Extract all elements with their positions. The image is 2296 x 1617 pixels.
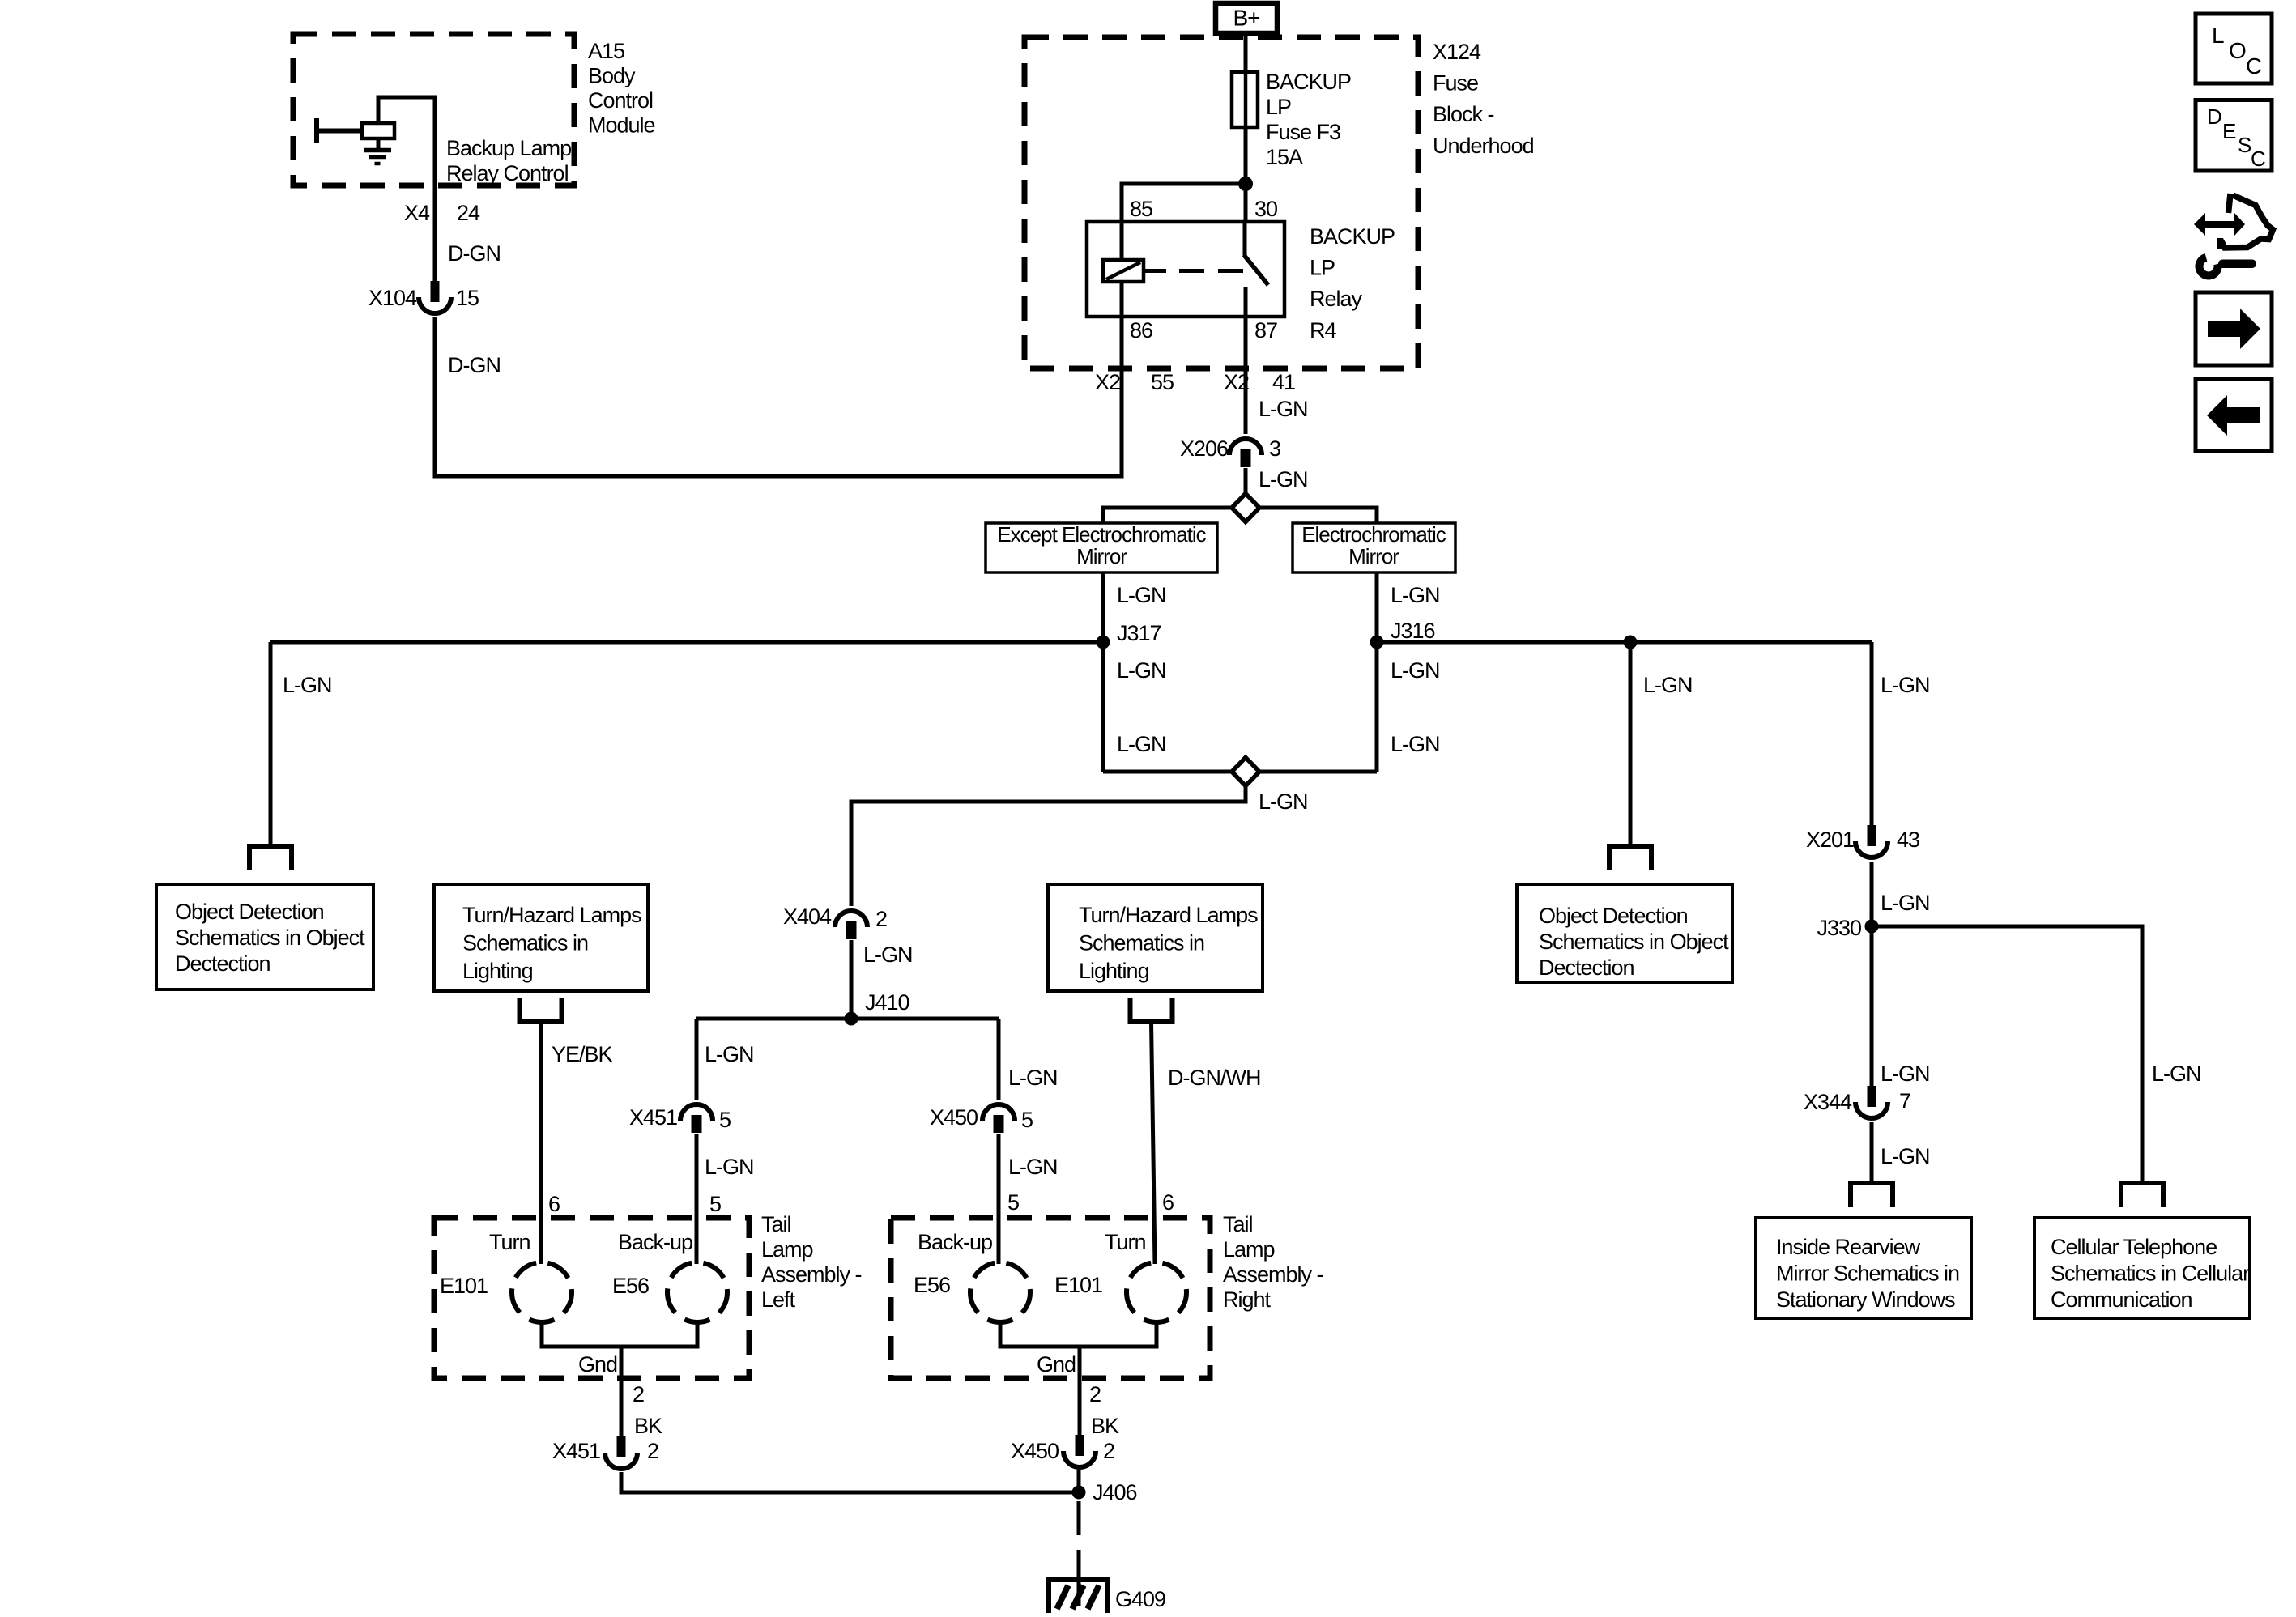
svg-text:L-GN: L-GN	[1259, 467, 1308, 491]
splice diamond option split	[1232, 494, 1259, 522]
svg-text:55: 55	[1151, 370, 1174, 394]
ground symbol inside A15	[377, 138, 381, 149]
node J317	[1097, 636, 1110, 649]
icon back arrow box	[2196, 380, 2272, 451]
svg-text:X344: X344	[1804, 1090, 1852, 1114]
svg-text:Except Electrochromatic: Except Electrochromatic	[997, 522, 1206, 547]
icon forward arrow box	[2196, 292, 2272, 365]
connector X451 pin 5	[680, 1104, 713, 1121]
svg-text:Tail: Tail	[1223, 1212, 1253, 1236]
wire X451 to J406	[621, 1472, 1079, 1492]
wire J317 run left	[270, 640, 1103, 645]
connector X206 pin 3	[1229, 439, 1262, 455]
svg-text:Mirror: Mirror	[1076, 544, 1127, 568]
connector X344 pin 7	[1868, 1086, 1876, 1107]
wire branch to relay pin 85	[1122, 184, 1246, 222]
svg-text:Module: Module	[588, 113, 655, 138]
tail lamp assembly right dashed box	[891, 1218, 1210, 1378]
svg-text:E56: E56	[612, 1274, 649, 1298]
svg-text:15: 15	[456, 286, 479, 310]
wire A15 pin 24 to X104	[433, 185, 437, 283]
wire J317 down to recombine diamond	[1101, 642, 1105, 772]
turn bulb E101 left	[512, 1262, 572, 1322]
svg-text:Mirror Schematics in: Mirror Schematics in	[1776, 1262, 1959, 1286]
off-page fork above left object detection box	[247, 844, 294, 849]
wire X206 to splice diamond	[1244, 468, 1248, 494]
connector X451 pin 2 lower	[617, 1436, 626, 1457]
svg-text:86: 86	[1130, 318, 1152, 343]
svg-text:15A: 15A	[1266, 145, 1303, 169]
svg-text:Inside Rearview: Inside Rearview	[1776, 1235, 1921, 1259]
svg-text:D-GN: D-GN	[448, 353, 501, 377]
svg-text:L-GN: L-GN	[1643, 673, 1693, 697]
svg-text:Block -: Block -	[1433, 102, 1494, 126]
icon LOC box	[2196, 14, 2272, 83]
svg-text:L-GN: L-GN	[863, 943, 913, 967]
option box Except Electrochromatic Mirror	[986, 523, 1217, 572]
connector X450 pin 5	[982, 1104, 1015, 1121]
svg-text:Left: Left	[761, 1287, 796, 1312]
svg-text:X201: X201	[1806, 828, 1854, 852]
wire diamond to Except Electrochromatic Mirror box	[1103, 508, 1233, 523]
svg-text:L-GN: L-GN	[705, 1155, 754, 1179]
off-page fork above inside rearview box	[1848, 1181, 1895, 1185]
svg-text:Lamp: Lamp	[761, 1237, 813, 1262]
svg-text:Gnd: Gnd	[1037, 1352, 1076, 1377]
power feed B+	[1216, 3, 1277, 33]
svg-text:L-GN: L-GN	[1008, 1155, 1058, 1179]
wire X201 to J330	[1870, 862, 1874, 926]
wire junction down to right object detection box	[1629, 642, 1633, 846]
wire J316 run right	[1377, 640, 1872, 645]
wire relay pin 87 down	[1244, 317, 1248, 434]
svg-text:85: 85	[1130, 197, 1152, 221]
svg-text:L-GN: L-GN	[1008, 1066, 1058, 1090]
svg-text:L-GN: L-GN	[705, 1042, 754, 1066]
svg-text:J410: J410	[865, 990, 909, 1015]
node J316	[1370, 636, 1384, 649]
svg-text:E101: E101	[440, 1274, 488, 1298]
svg-text:41: 41	[1272, 370, 1295, 394]
svg-text:6: 6	[1162, 1190, 1174, 1215]
svg-text:X2: X2	[1224, 370, 1249, 394]
svg-text:Stationary Windows: Stationary Windows	[1776, 1287, 1955, 1312]
wire J410 to X450	[997, 1019, 1001, 1100]
svg-text:L-GN: L-GN	[1391, 658, 1440, 683]
reference box Inside Rearview Mirror	[1756, 1218, 1971, 1318]
reference box Turn/Hazard Lamps Schematics in Lighting left	[434, 884, 648, 991]
svg-text:7: 7	[1899, 1089, 1910, 1113]
wire J410 bus	[696, 1017, 999, 1021]
svg-text:B+: B+	[1233, 6, 1259, 31]
off-page fork above cellular telephone box	[2119, 1181, 2166, 1185]
svg-text:L-GN: L-GN	[1259, 789, 1308, 814]
svg-text:Fuse: Fuse	[1433, 71, 1478, 96]
wire driver output to module pin	[378, 97, 435, 185]
svg-text:Lighting: Lighting	[462, 959, 533, 983]
svg-text:X451: X451	[629, 1105, 677, 1130]
fuse F3 15A	[1232, 72, 1258, 127]
svg-text:X2: X2	[1095, 370, 1120, 394]
svg-text:43: 43	[1897, 828, 1919, 852]
svg-text:YE/BK: YE/BK	[552, 1042, 613, 1066]
off-page fork above right object detection box	[1607, 844, 1654, 849]
svg-text:Control: Control	[588, 88, 653, 113]
svg-text:2: 2	[1103, 1439, 1114, 1463]
wire lighting ref to turn lamp left	[539, 1022, 543, 1264]
ground G409 symbol	[1046, 1577, 1110, 1582]
reference box Turn/Hazard Lamps Schematics in Lighting right	[1048, 884, 1263, 991]
wire X404 to J410	[850, 940, 854, 1019]
wire diamond down to X404 branch	[851, 785, 1246, 906]
svg-text:6: 6	[548, 1192, 560, 1216]
svg-text:J406: J406	[1093, 1480, 1137, 1504]
svg-text:Gnd: Gnd	[578, 1352, 617, 1377]
svg-text:D-GN: D-GN	[448, 241, 501, 266]
svg-text:5: 5	[1021, 1108, 1033, 1132]
svg-text:5: 5	[709, 1192, 721, 1216]
relay actuation dashed link	[1144, 269, 1166, 273]
wire lighting ref to turn lamp right	[1152, 1022, 1156, 1264]
connector X104 pin 15	[431, 281, 440, 302]
svg-text:Body: Body	[588, 64, 636, 88]
turn bulb E101 right	[1127, 1262, 1186, 1322]
svg-text:X451: X451	[552, 1439, 600, 1463]
svg-text:BK: BK	[634, 1414, 662, 1438]
svg-text:C: C	[2246, 53, 2262, 79]
wire B+ to fuse F3	[1244, 33, 1248, 73]
svg-text:Back-up: Back-up	[918, 1230, 992, 1254]
back-up bulb E56 right	[970, 1262, 1030, 1322]
icon DESC box	[2196, 100, 2272, 172]
junction node fuse output	[1238, 177, 1253, 191]
svg-text:Dectection: Dectection	[1539, 955, 1634, 980]
svg-text:Dectection: Dectection	[175, 951, 270, 976]
svg-text:Assembly -: Assembly -	[1223, 1262, 1323, 1287]
svg-text:Turn/Hazard Lamps: Turn/Hazard Lamps	[1079, 903, 1258, 927]
dashed wire J406 to ground G409	[1077, 1501, 1081, 1574]
reference box Object Detection left	[156, 884, 373, 989]
svg-text:J317: J317	[1117, 621, 1161, 645]
svg-text:O: O	[2229, 38, 2246, 63]
svg-text:Assembly -: Assembly -	[761, 1262, 862, 1287]
svg-text:Lamp: Lamp	[1223, 1237, 1275, 1262]
reference box Cellular Telephone	[2034, 1218, 2250, 1318]
svg-text:L-GN: L-GN	[1391, 732, 1440, 756]
svg-text:Relay: Relay	[1310, 287, 1363, 311]
svg-text:L-GN: L-GN	[1117, 658, 1166, 683]
svg-text:2: 2	[875, 907, 887, 931]
option box Electrochromatic Mirror	[1293, 523, 1455, 572]
junction node on J316 run	[1624, 636, 1638, 649]
svg-text:D-GN/WH: D-GN/WH	[1168, 1066, 1260, 1090]
svg-text:Schematics in Object: Schematics in Object	[1539, 930, 1729, 954]
wire fuse F3 to relay pin 30	[1244, 127, 1248, 222]
svg-text:30: 30	[1254, 197, 1277, 221]
svg-text:Tail: Tail	[761, 1212, 791, 1236]
svg-text:Right: Right	[1223, 1287, 1272, 1312]
svg-text:2: 2	[633, 1382, 644, 1406]
svg-text:Backup Lamp: Backup Lamp	[446, 136, 571, 160]
svg-text:LP: LP	[1310, 256, 1335, 280]
svg-text:Underhood: Underhood	[1433, 134, 1534, 158]
svg-text:2: 2	[647, 1439, 658, 1463]
svg-text:3: 3	[1269, 436, 1280, 461]
node J330	[1865, 920, 1879, 934]
svg-text:Object Detection: Object Detection	[1539, 904, 1688, 928]
off-page fork below left lighting box	[518, 1019, 564, 1024]
svg-text:Lighting: Lighting	[1079, 959, 1149, 983]
relay coil	[1120, 222, 1124, 260]
svg-text:G409: G409	[1115, 1587, 1165, 1611]
svg-text:L-GN: L-GN	[1881, 891, 1930, 915]
svg-text:S: S	[2238, 133, 2251, 157]
svg-text:5: 5	[719, 1108, 731, 1132]
svg-text:J330: J330	[1817, 916, 1861, 940]
svg-text:L-GN: L-GN	[2152, 1062, 2201, 1086]
svg-text:L-GN: L-GN	[1391, 583, 1440, 607]
svg-text:E: E	[2222, 119, 2236, 143]
back-up bulb E56 left	[667, 1262, 727, 1322]
svg-text:L-GN: L-GN	[1881, 673, 1930, 697]
wire J330 down to X344	[1870, 926, 1874, 1087]
svg-text:E56: E56	[914, 1273, 950, 1297]
svg-text:E101: E101	[1054, 1273, 1102, 1297]
svg-text:Electrochromatic: Electrochromatic	[1301, 522, 1446, 547]
wire Electro box to J316	[1375, 572, 1379, 642]
connector X450 pin 2 lower	[1076, 1435, 1084, 1456]
svg-text:C: C	[2251, 147, 2265, 171]
svg-text:Turn/Hazard Lamps: Turn/Hazard Lamps	[462, 903, 641, 927]
svg-text:Mirror: Mirror	[1348, 544, 1399, 568]
svg-text:LP: LP	[1266, 95, 1291, 119]
wire X450 to back-up lamp right	[997, 1134, 1001, 1264]
svg-text:A15: A15	[588, 39, 624, 63]
svg-text:X4: X4	[404, 201, 430, 225]
wire J410 to X451	[695, 1019, 699, 1100]
svg-text:Schematics in Cellular: Schematics in Cellular	[2051, 1262, 2250, 1286]
svg-text:5: 5	[1007, 1190, 1019, 1215]
wire J330 to cellular branch	[1872, 926, 2142, 1183]
wire J316 down to recombine diamond	[1375, 642, 1379, 772]
wire X104 to relay pin 86 wire	[435, 317, 1122, 476]
svg-text:L: L	[2212, 23, 2224, 48]
svg-text:L-GN: L-GN	[1881, 1062, 1930, 1086]
tail lamp assembly left dashed box	[434, 1218, 749, 1378]
svg-text:Turn: Turn	[1105, 1230, 1146, 1254]
svg-text:X104: X104	[368, 286, 417, 310]
svg-text:Turn: Turn	[489, 1230, 530, 1254]
fuse block X124 dashed box	[1024, 37, 1418, 368]
svg-text:Schematics in Object: Schematics in Object	[175, 926, 365, 950]
node J410	[845, 1012, 858, 1026]
svg-text:Back-up: Back-up	[618, 1230, 692, 1254]
svg-text:R4: R4	[1310, 318, 1336, 343]
wire J316 run end down to X201	[1870, 642, 1874, 827]
wire X451 to back-up lamp left	[695, 1134, 699, 1264]
svg-text:Relay Control: Relay Control	[446, 161, 569, 185]
wire J317 left end down	[269, 642, 273, 846]
svg-text:Schematics in: Schematics in	[462, 931, 588, 955]
recombine splice diamond	[1103, 770, 1233, 774]
svg-text:BACKUP: BACKUP	[1310, 224, 1395, 249]
off-page fork below right lighting box	[1128, 1019, 1175, 1024]
svg-text:D: D	[2207, 104, 2221, 129]
connector X404 pin 2	[835, 911, 867, 927]
svg-text:Object Detection: Object Detection	[175, 900, 324, 924]
svg-text:X450: X450	[930, 1105, 978, 1130]
backup lamp relay control driver symbol	[314, 118, 319, 143]
svg-text:87: 87	[1254, 318, 1277, 343]
svg-text:L-GN: L-GN	[1881, 1144, 1930, 1168]
svg-text:X206: X206	[1180, 436, 1228, 461]
node J406	[1072, 1486, 1086, 1500]
svg-text:X404: X404	[783, 904, 832, 929]
svg-text:Cellular Telephone: Cellular Telephone	[2051, 1235, 2217, 1259]
svg-text:J316: J316	[1391, 619, 1435, 643]
svg-text:Fuse F3: Fuse F3	[1266, 120, 1340, 144]
wire Except box to J317	[1101, 572, 1105, 642]
svg-text:L-GN: L-GN	[283, 673, 332, 697]
wire X344 to rearview mirror ref	[1870, 1122, 1874, 1183]
relay switch blade pin 30 to 87	[1243, 222, 1247, 257]
connector X201 pin 43	[1868, 825, 1876, 846]
relay R4 box	[1087, 222, 1284, 317]
svg-text:L-GN: L-GN	[1259, 397, 1308, 421]
module A15 Body Control Module dashed box	[293, 34, 574, 185]
svg-text:BACKUP: BACKUP	[1266, 70, 1351, 94]
svg-text:BK: BK	[1091, 1414, 1119, 1438]
svg-text:2: 2	[1089, 1382, 1101, 1406]
svg-text:24: 24	[457, 201, 480, 225]
wire diamond to Electrochromatic Mirror box	[1259, 508, 1377, 523]
ground bus left lamp	[542, 1321, 621, 1347]
svg-text:Schematics in: Schematics in	[1079, 931, 1204, 955]
reference box Object Detection right	[1517, 884, 1732, 982]
wire X450 to J406	[1077, 1470, 1081, 1492]
svg-text:Communication: Communication	[2051, 1287, 2192, 1312]
svg-text:L-GN: L-GN	[1117, 583, 1166, 607]
svg-text:X450: X450	[1011, 1439, 1059, 1463]
icon vehicle with double arrow and wrench	[2194, 213, 2245, 236]
svg-text:X124: X124	[1433, 40, 1481, 64]
ground bus right lamp	[1000, 1321, 1080, 1347]
svg-text:L-GN: L-GN	[1117, 732, 1166, 756]
